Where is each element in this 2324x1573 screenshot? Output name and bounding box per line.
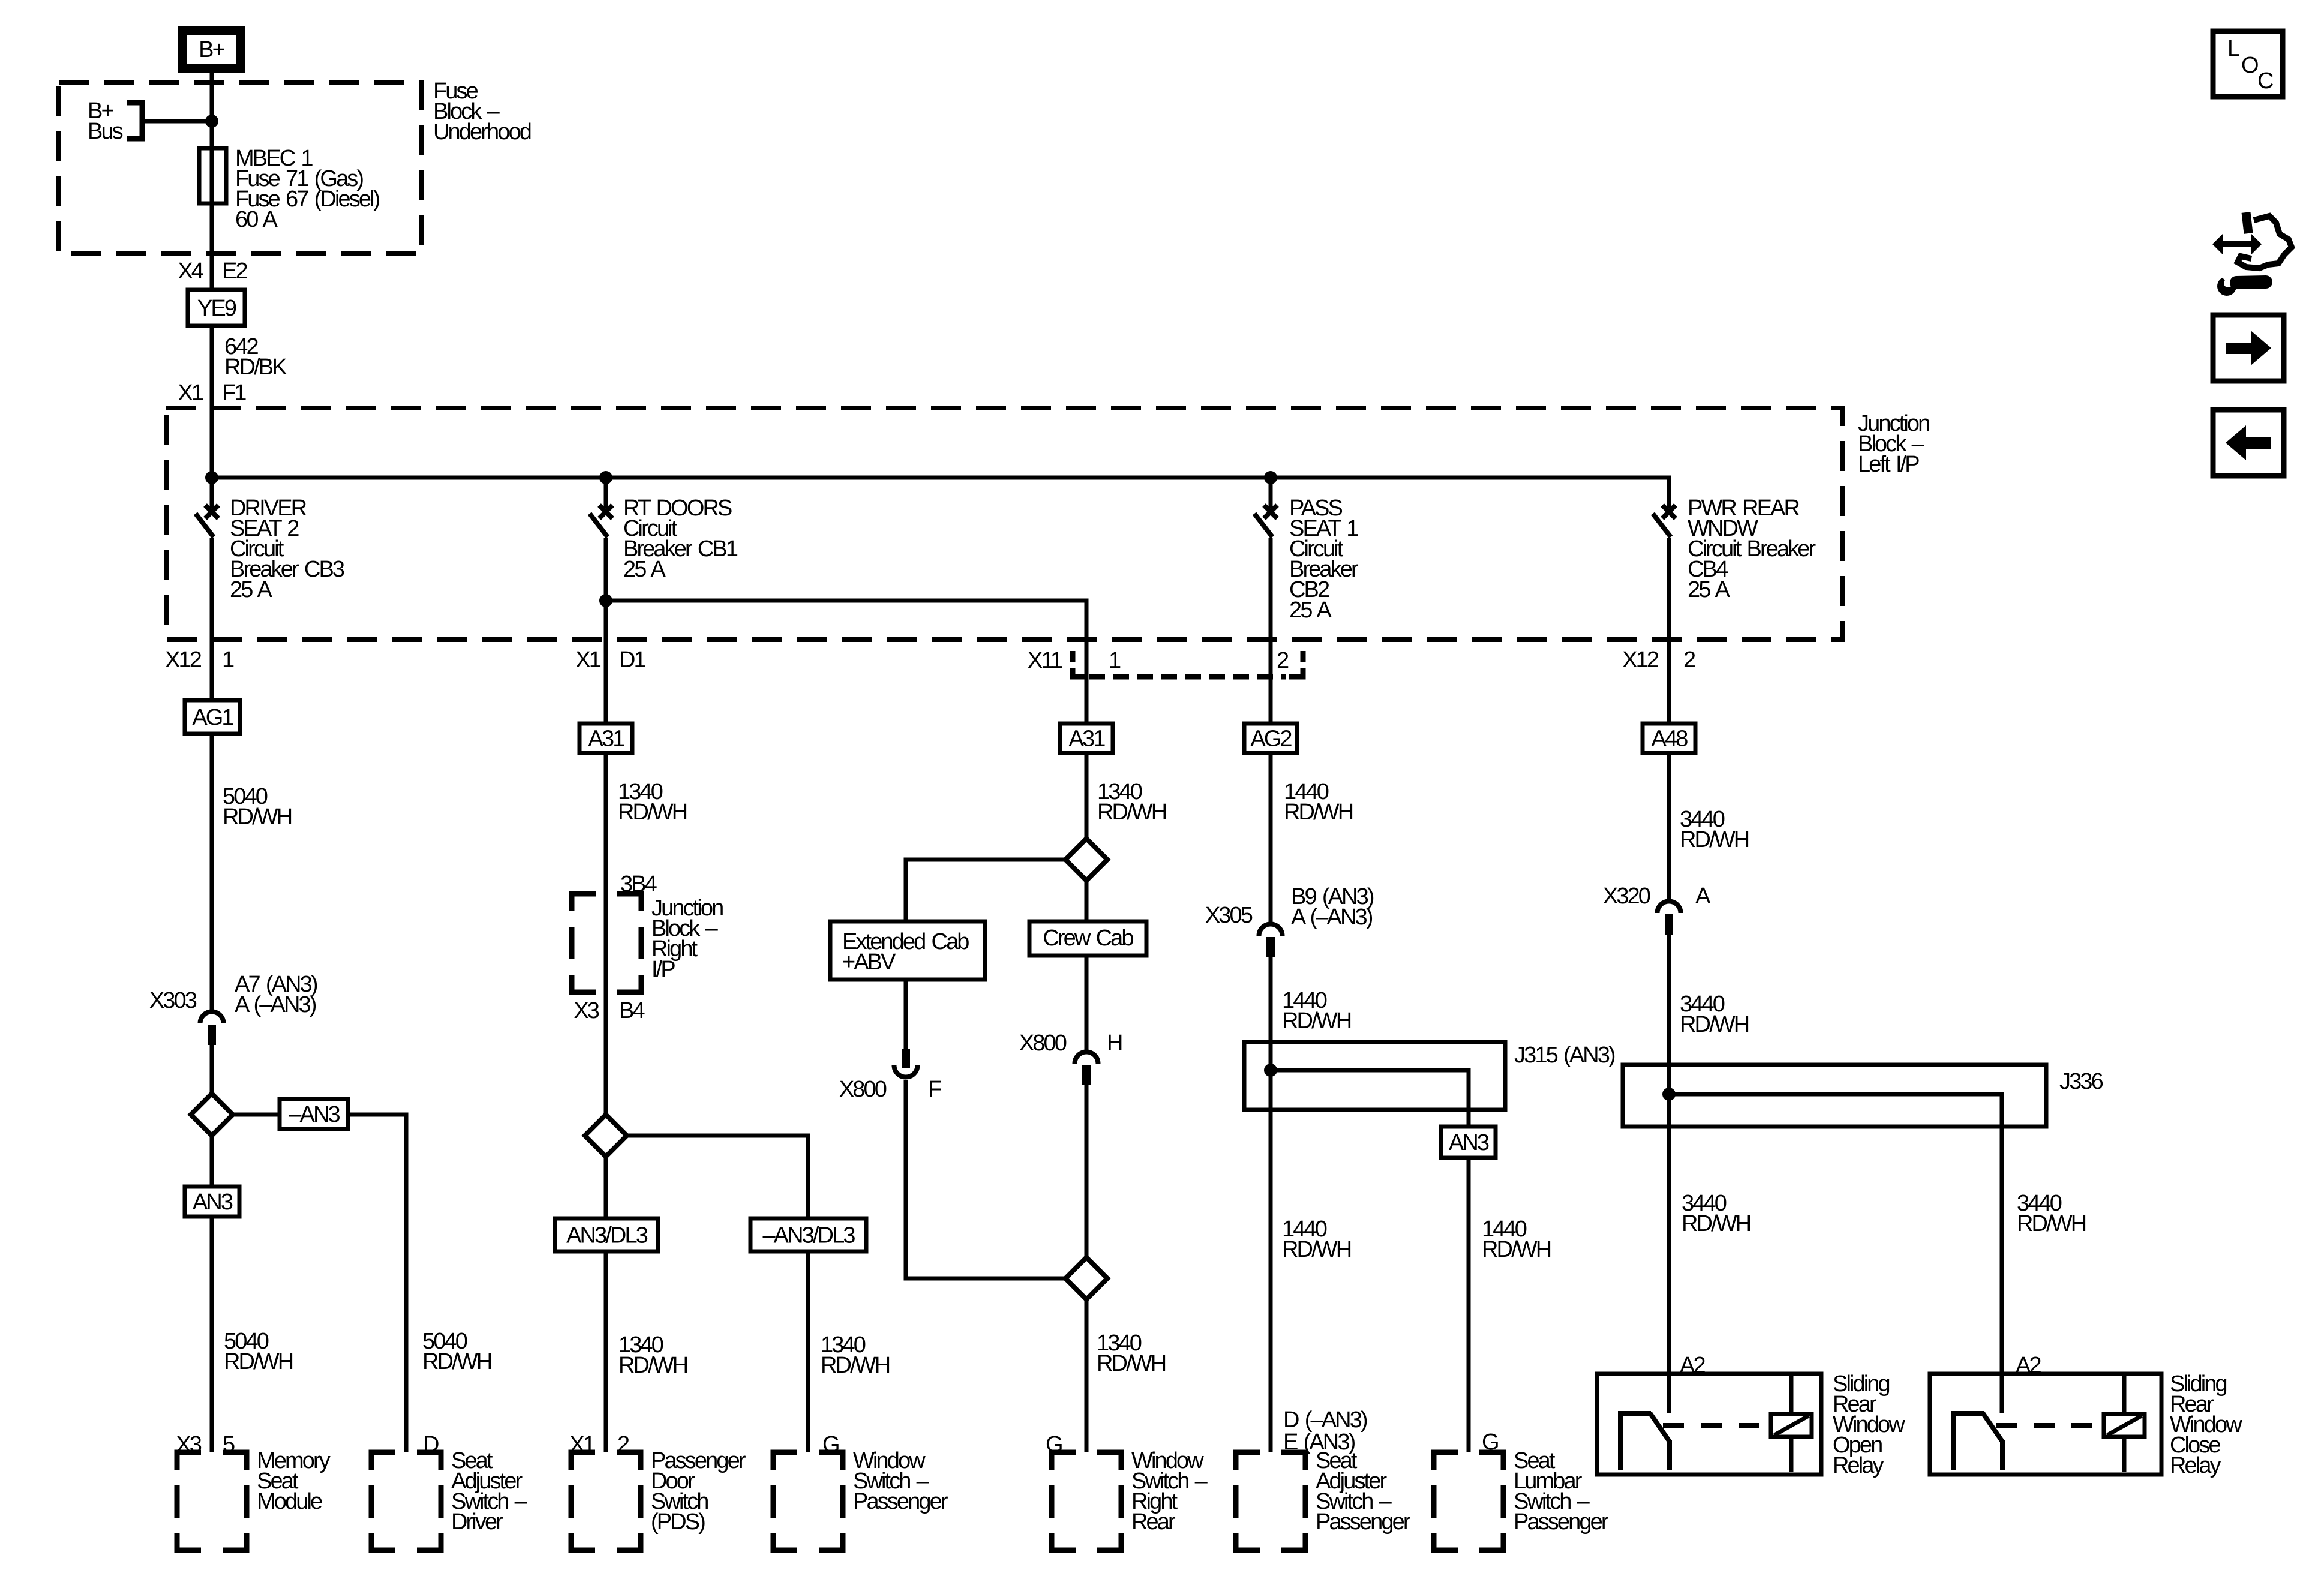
svg-text:D (–AN3): D (–AN3) (1283, 1407, 1367, 1433)
svg-text:Passenger: Passenger (853, 1489, 948, 1514)
svg-text:B4: B4 (619, 998, 645, 1023)
wire right IP to splice (604, 894, 608, 1115)
icon arrow right box (2213, 315, 2284, 381)
wire CB2 output (1269, 538, 1273, 724)
connector YE9 (188, 290, 245, 326)
svg-text:X303: X303 (149, 988, 197, 1013)
svg-text:AN3: AN3 (193, 1190, 233, 1215)
svg-text:RD/WH: RD/WH (1482, 1237, 1551, 1262)
node splice driver (191, 1094, 233, 1136)
svg-text:Module: Module (257, 1489, 322, 1514)
wire CB1 output (604, 538, 608, 724)
svg-text:RD/WH: RD/WH (1284, 800, 1353, 825)
component Window Switch - Passenger (773, 1452, 843, 1550)
svg-text:RD/BK: RD/BK (224, 355, 287, 380)
component Passenger Door Switch (PDS) (571, 1452, 641, 1550)
wire X303 to splice (210, 1044, 214, 1094)
svg-text:AG2: AG2 (1250, 727, 1292, 752)
svg-text:I/P: I/P (651, 957, 675, 982)
wire 5040 RD/WH to memory seat module (210, 1217, 214, 1452)
junction block right I/P dashed box (572, 894, 641, 992)
wire 3440 RD/WH through J336 (1667, 933, 1671, 1374)
node rejoin splice (1065, 1257, 1107, 1299)
svg-text:Relay: Relay (1833, 1453, 1884, 1478)
svg-text:O: O (2241, 53, 2259, 78)
node J336 tap (1662, 1088, 1676, 1101)
wire splice to -AN3/DL3 (627, 1136, 808, 1218)
svg-text:A31: A31 (1069, 727, 1106, 752)
svg-text:RD/WH: RD/WH (1682, 1211, 1750, 1236)
svg-text:25 A: 25 A (230, 577, 273, 602)
harness -AN3 (280, 1099, 348, 1129)
harness AN3 (185, 1187, 239, 1217)
svg-text:1: 1 (1109, 648, 1121, 673)
svg-text:Bus: Bus (88, 119, 123, 144)
wire 3440 RD/WH rear window (1667, 753, 1671, 900)
node bus-CB1 (599, 471, 612, 484)
svg-text:F1: F1 (222, 380, 246, 406)
node bus-CB3 (205, 471, 218, 484)
node splice pds (585, 1115, 627, 1157)
node J315 tap (1264, 1064, 1277, 1077)
wire 1440 RD/WH through J315 (1269, 956, 1273, 1452)
svg-text:+ABV: +ABV (842, 950, 896, 975)
svg-text:B+: B+ (199, 37, 224, 62)
power feed B+ terminal (182, 31, 241, 68)
icon adjust/service glyph (2212, 212, 2292, 296)
wire -AN3 to seat adjuster driver (348, 1115, 406, 1452)
node splice cab variants (1065, 839, 1107, 881)
wire extended cab to X800 F (904, 980, 908, 1049)
connector AG1 (185, 700, 240, 734)
node B+ bus tap (127, 103, 142, 139)
relay Sliding Rear Window Close Relay (1930, 1374, 2161, 1475)
wire 1340 RD/WH to window switch right rear (1085, 1299, 1089, 1452)
svg-text:AN3/DL3: AN3/DL3 (566, 1223, 648, 1248)
svg-text:RD/WH: RD/WH (618, 800, 687, 825)
svg-text:2: 2 (1277, 648, 1289, 673)
wire CB3 output (210, 538, 214, 700)
svg-text:RD/WH: RD/WH (422, 1349, 491, 1374)
svg-text:RD/WH: RD/WH (2017, 1211, 2086, 1236)
svg-text:F: F (928, 1077, 941, 1102)
wire 1340 RD/WH cab (1085, 753, 1089, 839)
connector A31 second (1060, 724, 1113, 753)
svg-text:YE9: YE9 (197, 296, 236, 321)
svg-text:–AN3/DL3: –AN3/DL3 (762, 1223, 855, 1248)
wire splice to -AN3 (233, 1113, 280, 1117)
svg-text:A: A (1695, 884, 1711, 909)
wire crew cab drop (1085, 881, 1089, 921)
component Seat Lumbar Switch - Passenger (1434, 1452, 1503, 1550)
wire 1440 RD/WH pass (1269, 753, 1273, 923)
wire CB4 output (1667, 538, 1671, 724)
svg-text:X320: X320 (1603, 884, 1650, 909)
svg-text:Left I/P: Left I/P (1858, 452, 1919, 477)
svg-text:Crew Cab: Crew Cab (1043, 926, 1133, 951)
svg-text:RD/WH: RD/WH (1097, 800, 1166, 825)
svg-text:RD/WH: RD/WH (1680, 1012, 1749, 1037)
splice pack J315 (AN3) (1244, 1042, 1505, 1110)
svg-text:E2: E2 (222, 259, 247, 284)
svg-text:Rear: Rear (1131, 1509, 1176, 1535)
svg-text:H: H (1107, 1031, 1122, 1056)
wire main bus (212, 478, 1669, 508)
svg-text:J336: J336 (2059, 1069, 2103, 1094)
icon arrow left box (2213, 410, 2284, 476)
wire B+ down through fuse (210, 73, 214, 291)
svg-text:Underhood: Underhood (433, 119, 531, 145)
svg-text:RD/WH: RD/WH (223, 804, 292, 830)
wire 1440 RD/WH to seat lumbar switch (1467, 1158, 1471, 1452)
svg-text:X800: X800 (1019, 1031, 1067, 1056)
svg-text:AN3: AN3 (1449, 1130, 1489, 1155)
component Window Switch - Right Rear (1052, 1452, 1121, 1550)
svg-text:RD/WH: RD/WH (1097, 1351, 1166, 1376)
svg-text:2: 2 (1683, 647, 1695, 673)
svg-text:Passenger: Passenger (1514, 1509, 1609, 1535)
option Crew Cab (1029, 921, 1146, 956)
wire CB1 drop (604, 478, 608, 508)
wire crew cab to X800 H (1085, 956, 1089, 1050)
svg-text:60 A: 60 A (235, 207, 278, 232)
junction block left I/P dashed box (166, 408, 1843, 640)
svg-text:RD/WH: RD/WH (224, 1349, 293, 1374)
wire 5040 RD/WH driver (210, 734, 214, 1010)
node bus-CB2 (1264, 471, 1277, 484)
svg-text:X12: X12 (165, 647, 202, 673)
svg-text:25 A: 25 A (623, 557, 666, 582)
svg-text:1: 1 (222, 647, 234, 673)
fuse MBEC 1 Fuse 71/67 60 A (199, 148, 226, 203)
icon LOC box (2213, 31, 2283, 97)
node CB1 branch (599, 594, 612, 607)
svg-text:RD/WH: RD/WH (618, 1353, 687, 1378)
option Extended Cab +ABV (830, 921, 985, 980)
relay Sliding Rear Window Open Relay (1597, 1374, 1821, 1475)
svg-text:X1: X1 (178, 380, 203, 406)
wire splice to AN3 (210, 1136, 214, 1187)
svg-text:C: C (2257, 68, 2274, 94)
harness AN3 second (1441, 1127, 1496, 1158)
svg-text:Driver: Driver (451, 1509, 503, 1535)
svg-text:X305: X305 (1205, 903, 1253, 928)
svg-text:L: L (2227, 36, 2240, 61)
harness -AN3/DL3 (750, 1218, 866, 1251)
svg-text:25 A: 25 A (1688, 577, 1731, 602)
circuit breaker CB3 DRIVER SEAT 2 (205, 505, 218, 518)
wire X11 internal dashed link (1089, 674, 1286, 680)
svg-text:AG1: AG1 (192, 705, 233, 730)
svg-text:X11: X11 (1028, 648, 1062, 673)
wire J336 internal branch to close relay (1669, 1094, 2002, 1374)
svg-text:X3: X3 (574, 998, 599, 1023)
svg-text:RD/WH: RD/WH (1680, 827, 1749, 852)
wire X800 H to rejoin splice (1085, 1084, 1089, 1257)
svg-text:X12: X12 (1622, 647, 1659, 673)
svg-text:RD/WH: RD/WH (821, 1353, 890, 1378)
svg-text:A (–AN3): A (–AN3) (235, 992, 316, 1017)
connector A48 (1643, 724, 1695, 753)
wire X800 F to rejoin splice (906, 1080, 1065, 1278)
wire 1340 RD/WH to window switch passenger (806, 1251, 810, 1452)
wire CB2 drop (1269, 478, 1273, 508)
svg-text:X4: X4 (178, 259, 203, 284)
wire 642 RD/BK (210, 326, 214, 508)
fuse block underhood dashed box (59, 83, 422, 254)
svg-text:D1: D1 (619, 647, 646, 673)
connector A31 (580, 724, 632, 753)
wire to extended cab (906, 860, 1065, 921)
svg-text:A48: A48 (1652, 727, 1688, 752)
svg-text:Passenger: Passenger (1316, 1509, 1411, 1535)
wire 1340 RD/WH to pds switch (604, 1251, 608, 1452)
component Seat Adjuster Switch - Passenger (1236, 1452, 1305, 1550)
wire splice to AN3/DL3 (604, 1157, 608, 1218)
circuit breaker CB2 PASS SEAT 1 (1264, 505, 1277, 518)
component Memory Seat Module (177, 1452, 247, 1550)
wire B+ bus to main feed (142, 119, 212, 124)
svg-text:X800: X800 (839, 1077, 887, 1102)
svg-text:A31: A31 (588, 727, 625, 752)
svg-text:Relay: Relay (2170, 1453, 2221, 1478)
svg-text:RD/WH: RD/WH (1282, 1237, 1351, 1262)
wire CB1 branch to crew cab column (606, 601, 1086, 724)
circuit breaker CB4 PWR REAR WNDW (1662, 505, 1676, 518)
component Seat Adjuster Switch - Driver (371, 1452, 441, 1550)
connector AG2 (1244, 724, 1297, 753)
circuit breaker CB1 RT DOORS (599, 505, 612, 518)
splice pack J336 (1623, 1065, 2046, 1127)
wire 1340 RD/WH pds (604, 753, 608, 894)
svg-text:25 A: 25 A (1289, 598, 1332, 623)
svg-text:X1: X1 (575, 647, 600, 673)
svg-text:A (–AN3): A (–AN3) (1291, 905, 1373, 930)
svg-text:(PDS): (PDS) (651, 1509, 705, 1535)
svg-text:–AN3: –AN3 (289, 1102, 340, 1127)
wire J315 internal branch (1271, 1070, 1469, 1127)
svg-text:J315 (AN3): J315 (AN3) (1514, 1043, 1615, 1068)
svg-text:RD/WH: RD/WH (1282, 1008, 1351, 1034)
harness AN3/DL3 (555, 1218, 658, 1251)
